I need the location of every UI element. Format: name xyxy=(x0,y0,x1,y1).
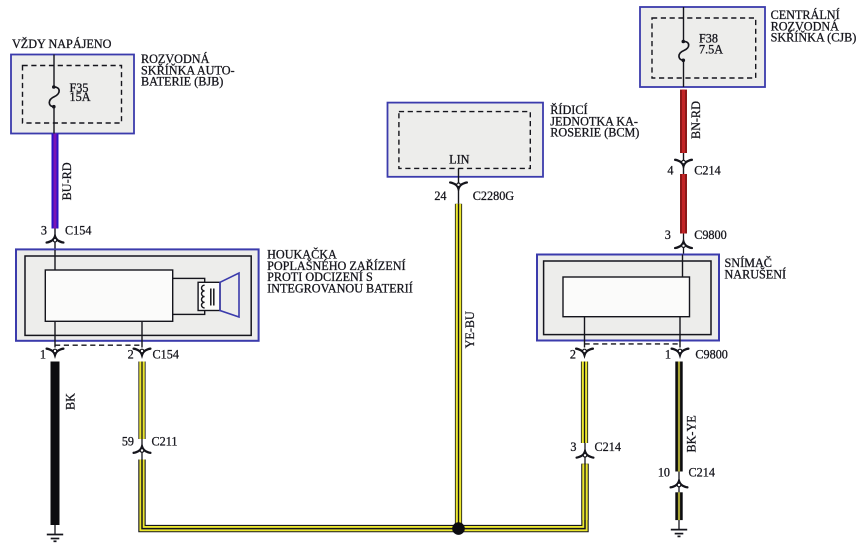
svg-text:24: 24 xyxy=(434,189,446,203)
svg-text:3: 3 xyxy=(570,440,576,454)
svg-text:VŽDY NAPÁJENO: VŽDY NAPÁJENO xyxy=(12,37,112,51)
svg-text:3: 3 xyxy=(41,224,47,238)
svg-text:INTEGROVANOU BATERIÍ: INTEGROVANOU BATERIÍ xyxy=(267,281,413,295)
svg-text:1: 1 xyxy=(40,348,46,362)
svg-text:BK-YE: BK-YE xyxy=(685,415,699,452)
svg-text:1: 1 xyxy=(665,348,671,362)
svg-text:BU-RD: BU-RD xyxy=(60,162,74,200)
svg-text:ROSERIE (BCM): ROSERIE (BCM) xyxy=(550,126,639,140)
svg-text:C2280G: C2280G xyxy=(473,189,515,203)
svg-text:7.5A: 7.5A xyxy=(699,42,723,56)
svg-text:NARUŠENÍ: NARUŠENÍ xyxy=(725,267,787,281)
svg-text:BN-RD: BN-RD xyxy=(689,101,703,139)
svg-text:C9800: C9800 xyxy=(695,348,728,362)
svg-text:C214: C214 xyxy=(694,164,720,178)
svg-text:C214: C214 xyxy=(689,466,715,480)
svg-text:BATERIE (BJB): BATERIE (BJB) xyxy=(141,75,223,89)
svg-text:4: 4 xyxy=(667,164,673,178)
svg-text:15A: 15A xyxy=(70,90,91,104)
svg-text:C154: C154 xyxy=(153,348,179,362)
svg-text:10: 10 xyxy=(658,466,670,480)
svg-text:YE-BU: YE-BU xyxy=(463,311,477,348)
svg-text:2: 2 xyxy=(570,348,576,362)
svg-text:LIN: LIN xyxy=(449,152,470,166)
svg-text:59: 59 xyxy=(122,435,134,449)
svg-text:3: 3 xyxy=(665,228,671,242)
svg-text:C154: C154 xyxy=(65,224,91,238)
svg-text:2: 2 xyxy=(128,348,134,362)
svg-text:C9800: C9800 xyxy=(694,228,727,242)
svg-text:C211: C211 xyxy=(152,435,178,449)
svg-text:SKŘÍŇKA (CJB): SKŘÍŇKA (CJB) xyxy=(771,31,857,45)
svg-text:BK: BK xyxy=(63,393,77,410)
svg-text:C214: C214 xyxy=(595,440,621,454)
